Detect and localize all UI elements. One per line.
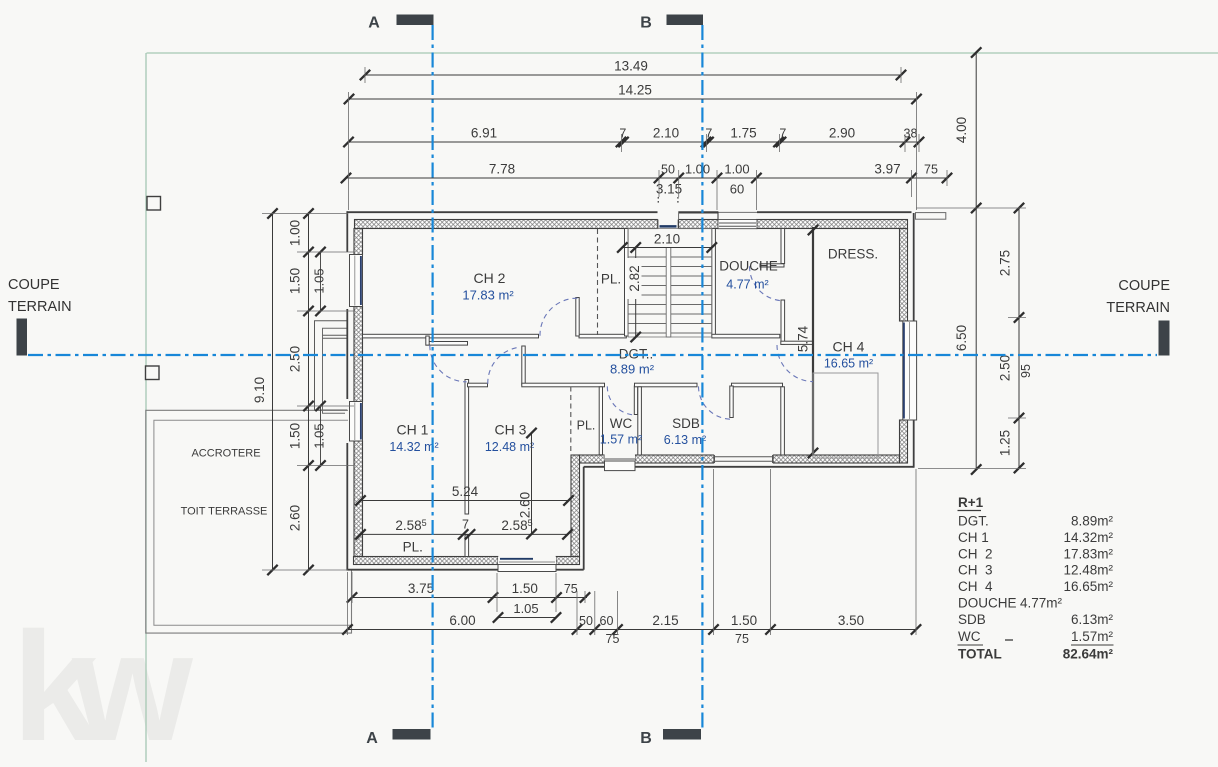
wall exterior right band upper bbox=[900, 229, 908, 322]
svg-text:5.74: 5.74 bbox=[796, 325, 811, 352]
entry door opening bbox=[658, 211, 679, 229]
svg-text:2.90: 2.90 bbox=[829, 126, 855, 141]
dimension chain 2.75 / 2.50 / 1.25 / 95 bbox=[1018, 208, 1020, 468]
wall exterior bottom band of right section seg2 bbox=[635, 455, 714, 463]
facade line right bbox=[913, 213, 915, 321]
svg-text:2.82: 2.82 bbox=[627, 265, 642, 291]
dimension 5.24 bbox=[361, 500, 569, 502]
entry door threshold (navy) bbox=[660, 225, 677, 228]
svg-text:17.83 m²: 17.83 m² bbox=[462, 288, 514, 303]
svg-text:2.10: 2.10 bbox=[654, 232, 680, 247]
svg-text:50: 50 bbox=[579, 614, 593, 628]
dimension line 13.49 bbox=[365, 74, 901, 76]
window right (CH4) bbox=[903, 321, 917, 420]
boundary marker square upper bbox=[147, 197, 161, 211]
svg-text:DGT.: DGT. bbox=[958, 514, 989, 529]
wall exterior bottom band of right section seg3 bbox=[773, 455, 900, 463]
svg-text:5.24: 5.24 bbox=[452, 484, 479, 499]
svg-text:1.05: 1.05 bbox=[312, 423, 327, 448]
window top (entry side) bbox=[718, 220, 757, 229]
svg-text:1.00: 1.00 bbox=[724, 162, 749, 177]
section line B vertical bbox=[701, 25, 703, 730]
svg-text:12.48 m²: 12.48 m² bbox=[485, 440, 534, 454]
svg-text:16.65 m²: 16.65 m² bbox=[824, 357, 873, 371]
svg-text:DOUCHE: DOUCHE bbox=[719, 259, 778, 274]
wall interior DOUCHE right upper bbox=[781, 229, 785, 264]
wall interior stair left bbox=[625, 229, 629, 337]
svg-text:9.10: 9.10 bbox=[252, 377, 267, 403]
dotted extension marks under 3.15 bbox=[657, 197, 659, 203]
svg-text:TERRAIN: TERRAIN bbox=[8, 299, 72, 315]
svg-text:7: 7 bbox=[779, 127, 786, 141]
wall interior CH3 top-left piece bbox=[468, 383, 488, 387]
dimension line 6.00 / 50 / 60 / 2.15 / 1.50 / 3.50 bbox=[348, 629, 917, 631]
facade line left bbox=[346, 211, 348, 252]
svg-text:2.50: 2.50 bbox=[998, 355, 1013, 381]
svg-text:DOUCHE: DOUCHE bbox=[958, 596, 1017, 611]
svg-text:2.15: 2.15 bbox=[652, 613, 678, 628]
svg-text:6.13m²: 6.13m² bbox=[1071, 612, 1114, 627]
site boundary line left bbox=[145, 53, 147, 762]
window left lower bbox=[350, 402, 363, 442]
svg-text:12.48m²: 12.48m² bbox=[1063, 563, 1113, 578]
closet PL lower dashed front bbox=[570, 387, 572, 455]
svg-text:14.32m²: 14.32m² bbox=[1063, 530, 1113, 545]
wall interior CH1-CH3 divider upper bbox=[465, 380, 469, 515]
terrace inner outline bbox=[154, 420, 352, 625]
wall exterior left band lower bbox=[354, 441, 363, 557]
door WC leaf bbox=[634, 386, 637, 415]
svg-text:1.57m²: 1.57m² bbox=[1071, 629, 1114, 644]
svg-text:14.25: 14.25 bbox=[618, 83, 652, 98]
extension lines left bbox=[262, 213, 348, 215]
wall exterior step band vertical bbox=[571, 455, 580, 557]
wall interior CH2 bottom bbox=[363, 334, 539, 338]
door arc CH1 bbox=[430, 345, 467, 382]
svg-text:TOTAL: TOTAL bbox=[958, 647, 1002, 662]
extension lines bottom bbox=[351, 572, 353, 603]
svg-text:75: 75 bbox=[924, 163, 938, 177]
svg-text:1.75: 1.75 bbox=[730, 126, 756, 141]
svg-text:CH 3: CH 3 bbox=[495, 422, 527, 438]
svg-text:6.13 m²: 6.13 m² bbox=[664, 433, 706, 447]
svg-text:75: 75 bbox=[564, 582, 578, 596]
svg-text:1.25: 1.25 bbox=[998, 430, 1013, 456]
svg-text:17.83m²: 17.83m² bbox=[1063, 546, 1113, 561]
wall exterior top band left segment bbox=[355, 220, 659, 229]
wall interior DOUCHE right lower bbox=[781, 300, 785, 344]
svg-text:1.05: 1.05 bbox=[513, 601, 538, 616]
wall exterior bottom band of left section seg2 bbox=[556, 557, 580, 565]
dimension 2.585 / 7 / 2.585 bbox=[361, 533, 568, 535]
dimension line 6.91 / 2.10 / 1.75 / 2.90 / 38 bbox=[349, 141, 920, 143]
door SDB leaf bbox=[730, 386, 733, 418]
wall interior right of CH2 door bbox=[579, 334, 626, 338]
facade line top bbox=[347, 211, 658, 213]
door arc WC bbox=[607, 386, 636, 415]
svg-text:2.50: 2.50 bbox=[288, 346, 303, 372]
window CH3 bottom with sill bbox=[498, 557, 556, 565]
svg-text:CH 4: CH 4 bbox=[833, 339, 865, 355]
svg-text:7.78: 7.78 bbox=[489, 162, 515, 177]
window left upper bbox=[350, 255, 363, 307]
svg-text:COUPE: COUPE bbox=[8, 277, 60, 293]
ledge outline top-right corner bbox=[916, 213, 946, 220]
svg-text:3.97: 3.97 bbox=[874, 162, 900, 177]
svg-text:1.57 m²: 1.57 m² bbox=[600, 433, 642, 447]
dimension sub-chain 1.05 windows bbox=[320, 252, 322, 311]
svg-text:82.64m²: 82.64m² bbox=[1063, 647, 1114, 662]
svg-text:3.50: 3.50 bbox=[838, 613, 864, 628]
svg-text:CH 4: CH 4 bbox=[958, 579, 993, 594]
svg-text:COUPE: COUPE bbox=[1118, 278, 1170, 294]
svg-text:2.10: 2.10 bbox=[653, 126, 679, 141]
svg-text:1.00: 1.00 bbox=[685, 162, 710, 177]
dimension line 7.78 / 50 / 1.00 / 1.00 / 3.97 / 75 bbox=[346, 177, 947, 179]
window WC with sill bbox=[605, 455, 636, 464]
svg-text:6.50: 6.50 bbox=[954, 325, 969, 351]
dimension 2.82 stairs bbox=[635, 248, 637, 338]
facade line bottom of right section bbox=[584, 466, 914, 468]
staircase outline bbox=[628, 229, 712, 338]
svg-text:50: 50 bbox=[661, 163, 675, 177]
dimension line 9.10 bbox=[272, 214, 274, 571]
wall interior stub joining CH1/CH2 walls bbox=[426, 336, 429, 345]
svg-text:1.00: 1.00 bbox=[288, 220, 303, 246]
dimension chain 1.00 / 1.50 / 2.50 / 1.50 / 2.60 bbox=[308, 214, 310, 571]
dimension line 3.75 / 1.50 / 75 bbox=[352, 597, 587, 599]
svg-text:1.50: 1.50 bbox=[731, 613, 757, 628]
dimension 2.10 stairs bbox=[622, 247, 712, 249]
boundary marker square lower bbox=[146, 366, 160, 380]
closet PL upper dashed front bbox=[597, 229, 599, 335]
door arc CH4 bbox=[777, 345, 813, 382]
wall interior stair right / DOUCHE left bbox=[712, 229, 716, 337]
dimension line 14.25 bbox=[349, 98, 917, 100]
svg-text:1.50: 1.50 bbox=[512, 581, 538, 596]
svg-text:SDB: SDB bbox=[672, 416, 700, 431]
wall exterior bottom band of right section seg1 bbox=[580, 455, 605, 463]
svg-text:8.89 m²: 8.89 m² bbox=[610, 362, 655, 377]
staircase steps bbox=[628, 247, 712, 249]
extension lines top bbox=[348, 92, 350, 210]
section line horizontal coupe terrain bbox=[28, 354, 1157, 356]
svg-text:2.60: 2.60 bbox=[518, 492, 533, 518]
door arc CH3 bbox=[488, 347, 519, 384]
svg-text:A: A bbox=[368, 15, 380, 32]
extension lines right bbox=[916, 207, 1026, 209]
wall interior SDB right bbox=[781, 387, 785, 455]
svg-text:A: A bbox=[366, 730, 378, 747]
svg-text:7: 7 bbox=[619, 127, 626, 141]
door CH4 leaf bbox=[781, 341, 813, 344]
svg-text:60: 60 bbox=[600, 614, 614, 628]
svg-text:1.50: 1.50 bbox=[288, 268, 303, 294]
terrace outer outline bbox=[146, 410, 352, 633]
wall exterior right band lower bbox=[900, 420, 908, 463]
svg-text:38: 38 bbox=[904, 127, 918, 141]
dimension 2.60 vertical CH3 bbox=[531, 433, 533, 534]
wall interior CH3/PL/WC top bbox=[522, 383, 605, 387]
svg-text:DRESS.: DRESS. bbox=[828, 247, 878, 262]
svg-text:4.77 m²: 4.77 m² bbox=[726, 278, 768, 292]
svg-text:CH 1: CH 1 bbox=[958, 530, 989, 545]
door arc DOUCHE bbox=[749, 266, 784, 301]
svg-text:R+1: R+1 bbox=[958, 495, 984, 510]
wall interior WC right divider bbox=[638, 387, 642, 455]
wall DRESS-DGT divider (with 5.74 dim) bbox=[812, 227, 814, 455]
svg-text:1.50: 1.50 bbox=[288, 423, 303, 449]
door arc SDB bbox=[699, 386, 732, 419]
wall interior WC-SDB top bbox=[635, 383, 698, 387]
svg-text:SDB: SDB bbox=[958, 612, 986, 627]
dimension line 1.05 window bbox=[498, 617, 556, 619]
svg-text:B: B bbox=[640, 730, 652, 747]
svg-text:6.00: 6.00 bbox=[449, 613, 475, 628]
wall interior CH1-CH3 divider lower bbox=[465, 535, 469, 557]
staircase stringer bbox=[666, 248, 671, 338]
svg-text:6.91: 6.91 bbox=[471, 126, 497, 141]
svg-text:B: B bbox=[640, 15, 652, 32]
door CH2 leaf bbox=[576, 298, 579, 337]
svg-text:WC: WC bbox=[958, 629, 981, 644]
dimension line 4.00 / 6.50 bbox=[975, 53, 977, 470]
svg-text:CH 1: CH 1 bbox=[397, 422, 429, 438]
svg-text:3.15: 3.15 bbox=[656, 182, 682, 197]
svg-text:16.65m²: 16.65m² bbox=[1063, 579, 1113, 594]
svg-text:TOIT TERRASSE: TOIT TERRASSE bbox=[181, 506, 268, 518]
svg-text:4.00: 4.00 bbox=[954, 117, 969, 143]
svg-text:2.75: 2.75 bbox=[998, 250, 1013, 276]
wall exterior top band middle segment bbox=[679, 220, 719, 229]
wall exterior top band right segment bbox=[757, 220, 908, 229]
svg-text:14.32 m²: 14.32 m² bbox=[389, 440, 438, 454]
svg-text:4.77m²: 4.77m² bbox=[1020, 596, 1063, 611]
window SDB bbox=[714, 455, 773, 464]
svg-text:PL.: PL. bbox=[577, 419, 596, 433]
wall exterior left band upper bbox=[354, 229, 363, 255]
svg-text:8.89m²: 8.89m² bbox=[1071, 514, 1114, 529]
svg-text:kw: kw bbox=[12, 600, 193, 762]
door CH3 leaf bbox=[522, 346, 525, 385]
svg-text:ACCROTERE: ACCROTERE bbox=[191, 448, 260, 460]
svg-text:PL.: PL. bbox=[403, 540, 423, 555]
wall exterior left band middle bbox=[354, 307, 363, 402]
wall interior WC left bbox=[599, 387, 602, 455]
wall interior CH1 top piece bbox=[426, 342, 468, 346]
wall interior DOUCHE bottom bbox=[712, 334, 780, 338]
wall interior SDB top right piece bbox=[732, 383, 783, 387]
wall exterior bottom band of left section seg1 bbox=[354, 557, 499, 565]
svg-text:TERRAIN: TERRAIN bbox=[1106, 300, 1170, 316]
svg-text:CH 2: CH 2 bbox=[474, 270, 506, 286]
svg-text:3.75: 3.75 bbox=[408, 581, 434, 596]
facade line step vertical bbox=[583, 467, 585, 570]
CH4 inner rectangle bbox=[813, 373, 878, 458]
svg-text:7: 7 bbox=[462, 518, 469, 532]
svg-text:PL.: PL. bbox=[601, 272, 621, 287]
ledge outline outside left wall bbox=[315, 321, 348, 410]
svg-text:2.60: 2.60 bbox=[288, 505, 303, 531]
svg-text:75: 75 bbox=[735, 632, 749, 646]
svg-text:13.49: 13.49 bbox=[614, 59, 648, 74]
section line A vertical bbox=[432, 25, 434, 730]
svg-text:CH 2: CH 2 bbox=[958, 546, 993, 561]
facade lintel jambs at porch bbox=[678, 211, 680, 219]
facade line bottom of left section bbox=[347, 569, 584, 571]
svg-text:CH 3: CH 3 bbox=[958, 563, 993, 578]
svg-text:WC: WC bbox=[610, 416, 633, 431]
svg-text:60: 60 bbox=[730, 182, 744, 197]
svg-text:95: 95 bbox=[1019, 364, 1033, 378]
door arc CH2 bbox=[540, 298, 578, 336]
door DOUCHE leaf bbox=[760, 264, 784, 267]
svg-text:1.05: 1.05 bbox=[312, 268, 327, 293]
site boundary line top bbox=[147, 52, 1218, 54]
